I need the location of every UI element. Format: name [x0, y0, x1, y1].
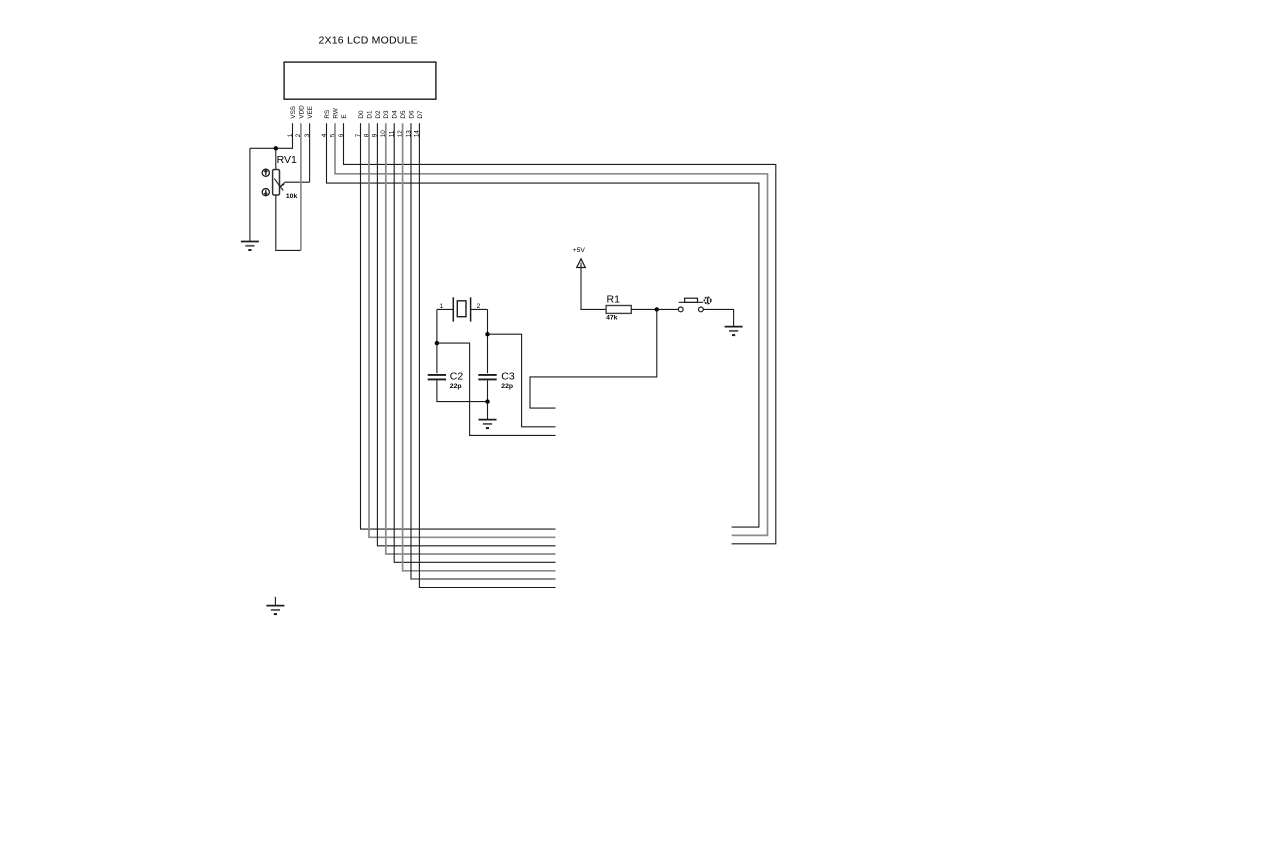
svg-text:2X16 LCD MODULE: 2X16 LCD MODULE [319, 35, 418, 47]
svg-text:D5: D5 [400, 110, 407, 119]
wire D0 (LCD pin7) to U1 PB0 [361, 123, 556, 529]
svg-text:E: E [341, 114, 348, 118]
wire XTAL2 branch [437, 343, 556, 435]
svg-text:D6: D6 [408, 110, 415, 119]
potentiometer RV1 wiper arrow [274, 179, 280, 187]
svg-text:C3: C3 [501, 371, 515, 383]
wire crystal pin2 right [471, 308, 488, 310]
svg-text:22p: 22p [501, 383, 513, 390]
svg-text:10k: 10k [286, 193, 298, 200]
push button right contact [699, 307, 704, 312]
potentiometer RV1 decrease indicator [262, 189, 269, 196]
svg-text:D4: D4 [392, 110, 399, 119]
svg-text:D1: D1 [366, 110, 373, 119]
wire D7 (LCD pin14) to U1 PB7 [419, 123, 555, 587]
capacitor C2 [428, 374, 446, 376]
svg-text:D0: D0 [358, 110, 365, 119]
wire crystal right down to C3 [487, 309, 489, 373]
wire RW (LCD pin5) to U1 PD6 [335, 123, 768, 535]
wire junction to button [657, 308, 679, 310]
wire LCD pin1 VSS down [250, 123, 293, 148]
svg-text:D2: D2 [375, 110, 382, 119]
wire VDD column (LCD pin2) [300, 123, 302, 250]
svg-text:D3: D3 [383, 110, 390, 119]
floating ground below LCD bus [274, 597, 276, 606]
svg-text:RS: RS [324, 110, 331, 119]
wire button to ground [703, 309, 733, 326]
wire junction to RV1 top [275, 148, 277, 169]
potentiometer RV1 increase indicator [262, 169, 269, 176]
junction C2/C3 ground node [485, 399, 489, 403]
push button actuator [679, 301, 703, 303]
push button operate indicator [704, 297, 711, 304]
wire RS (LCD pin4) to U1 PD5 [327, 123, 759, 527]
wire XTAL1 branch [488, 334, 556, 427]
svg-text:R1: R1 [607, 294, 621, 306]
power +5V arrow (reset pull-up) [577, 259, 586, 268]
wire C3 bottom [487, 380, 489, 401]
ground (crystal caps) [479, 420, 497, 429]
junction R1/button/RESET [655, 307, 659, 311]
wire D6 (LCD pin13) to U1 PB6 [411, 123, 556, 579]
svg-text:22p: 22p [450, 383, 462, 390]
wire RV1 bottom to VDD column [276, 195, 301, 250]
svg-text:VSS: VSS [290, 106, 297, 119]
ground (reset button) [725, 327, 743, 336]
wire D1 (LCD pin8) to U1 PB1 [369, 123, 556, 537]
svg-text:C2: C2 [450, 371, 464, 383]
crystal X1 [452, 297, 454, 321]
ground (RV1 / VSS) [241, 242, 259, 251]
svg-text:RW: RW [332, 108, 339, 118]
svg-text:RV1: RV1 [277, 154, 297, 166]
wire D2 (LCD pin9) to U1 PB2 [377, 123, 555, 546]
wire C2 bottom [437, 380, 488, 401]
svg-text:47k: 47k [606, 314, 618, 321]
capacitor C3 [478, 374, 496, 376]
wire to crystal ground [487, 402, 489, 420]
wire RESET net [530, 309, 657, 408]
potentiometer RV1 body [273, 170, 280, 196]
svg-text:VDD: VDD [298, 105, 305, 119]
svg-text:VEE: VEE [307, 106, 314, 119]
wire D3 (LCD pin10) to U1 PB3 [386, 123, 556, 554]
wire VSS to ground [249, 148, 251, 241]
wire +5V to R1 [581, 268, 606, 310]
LCD module body [284, 62, 436, 99]
push button left contact [678, 307, 683, 312]
wire VEE column (LCD pin3) to wiper [309, 123, 311, 182]
junction crystal-left / XTAL2 branch [435, 341, 439, 345]
svg-text:+5V: +5V [573, 247, 586, 254]
svg-text:D7: D7 [417, 110, 424, 119]
wire D4 (LCD pin11) to U1 PB4 [394, 123, 555, 562]
wire E (LCD pin6) to U1 PD7 [344, 123, 776, 544]
wire D5 (LCD pin12) to U1 PB5 [403, 123, 556, 571]
junction VSS/RV1 [274, 146, 278, 150]
wire crystal pin1 left [437, 308, 453, 310]
wire crystal left down to C2 [436, 309, 438, 373]
wire R1 to junction [631, 308, 657, 310]
junction crystal-right / XTAL1 branch [485, 332, 489, 336]
resistor R1 body [606, 306, 631, 314]
